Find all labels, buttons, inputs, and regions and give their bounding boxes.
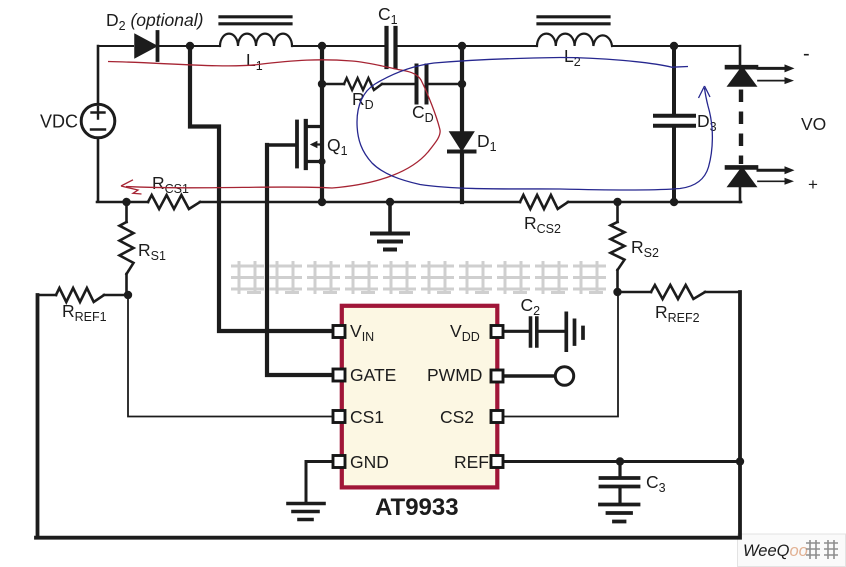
svg-text:RS1: RS1: [138, 240, 166, 263]
svg-text:REF: REF: [454, 452, 489, 472]
resistor RD: [344, 78, 382, 90]
node REF right corner: [736, 457, 744, 465]
watermark hangzhou company gray text: [231, 261, 606, 294]
capacitor C3: [618, 462, 621, 477]
pin GATE: [333, 369, 345, 381]
node Q1 source bottom: [318, 198, 326, 206]
svg-text:RREF1: RREF1: [62, 301, 107, 324]
inductor L2: [537, 34, 612, 46]
LED pair with arrows: [727, 65, 756, 70]
wire PWMD terminal: [502, 374, 554, 378]
svg-text:D3: D3: [697, 111, 717, 134]
node RREF1 RS1 junction: [124, 291, 132, 299]
node RS2 RREF2 CS2 junction: [613, 288, 621, 296]
wire Q1 drain-source vertical x=322: [320, 46, 324, 202]
wire outer loop left/bottom/right: [36, 292, 740, 538]
node C1 right top rail: [458, 42, 466, 50]
svg-text:VDC: VDC: [40, 112, 78, 132]
svg-text:CD: CD: [412, 102, 434, 125]
node RD left: [318, 80, 326, 88]
pin GND: [333, 456, 345, 468]
capacitor CD: [417, 66, 427, 103]
svg-text:D1: D1: [477, 131, 497, 154]
pin CS2: [491, 411, 503, 423]
node ground bottom rail: [386, 198, 394, 206]
svg-text:RCS1: RCS1: [152, 173, 189, 196]
transistor Q1: [267, 143, 296, 146]
node D3 top: [670, 42, 678, 50]
pin VIN: [333, 326, 345, 338]
svg-text:RD: RD: [352, 89, 374, 112]
wire VDD / capacitor C2: [502, 330, 529, 333]
inductor L1: [220, 34, 292, 46]
core of L1: [220, 17, 291, 24]
capacitor D3: [672, 46, 676, 202]
wire top rail y=46: [98, 45, 740, 47]
pin PWMD: [491, 370, 503, 382]
wire thick from node after D2 down to VIN pin: [190, 46, 336, 331]
wire VDC left vertical: [97, 46, 100, 201]
node Q1 source stub: [318, 158, 325, 165]
svg-text:VO: VO: [801, 114, 826, 134]
resistor RREF2: [618, 291, 741, 294]
core of L2: [538, 17, 609, 24]
svg-text:CS2: CS2: [440, 407, 474, 427]
svg-text:-: -: [803, 43, 810, 65]
svg-text:CS1: CS1: [350, 407, 384, 427]
ground below Q1 source node: [388, 202, 392, 233]
resistor RCS1: [148, 195, 200, 209]
svg-text:C2: C2: [521, 295, 541, 318]
svg-text:GND: GND: [350, 452, 389, 472]
node D3 bottom: [670, 198, 678, 206]
svg-text:PWMD: PWMD: [427, 365, 482, 385]
resistor RS2: [616, 202, 619, 292]
svg-text:+: +: [808, 175, 818, 194]
svg-text:Q1: Q1: [327, 135, 348, 158]
svg-text:C3: C3: [646, 472, 666, 495]
watermark weeqoo box: [738, 534, 846, 567]
svg-text:GATE: GATE: [350, 365, 396, 385]
annotation red current loop: [108, 60, 440, 194]
resistor RCS2: [520, 195, 568, 209]
IC body AT9933: [342, 306, 498, 488]
svg-text:RREF2: RREF2: [655, 302, 700, 325]
wire GATE from Q1: [267, 145, 336, 375]
wire LED branch: [739, 46, 742, 202]
svg-text:C1: C1: [378, 4, 398, 27]
wire GND pin to ground: [306, 462, 336, 504]
pin REF: [491, 456, 503, 468]
svg-text:WeeQoo: WeeQoo: [743, 542, 808, 560]
wire REF: [502, 460, 740, 463]
node CD right: [458, 80, 466, 88]
pin squares: [333, 326, 503, 468]
wire CS2: [502, 292, 618, 417]
annotation blue current loop: [357, 58, 712, 191]
source VDC: [81, 104, 115, 138]
resistor RREF1: [38, 294, 129, 297]
svg-text:AT9933: AT9933: [375, 494, 459, 521]
svg-text:RS2: RS2: [631, 237, 659, 260]
node after D2: [186, 42, 194, 50]
capacitor C1: [387, 28, 396, 67]
diode D2: [135, 35, 157, 58]
pin VDD: [491, 326, 503, 338]
svg-text:RCS2: RCS2: [524, 213, 561, 236]
wire RD row: [322, 83, 462, 86]
diode D1: [460, 46, 464, 202]
node dots: [122, 42, 744, 466]
node RS1 top: [122, 198, 130, 206]
wire CS1: [128, 295, 336, 417]
wire bottom rail y=202: [97, 201, 741, 204]
svg-text:D2 (optional): D2 (optional): [106, 10, 203, 33]
resistor RS1: [125, 202, 128, 295]
node C3 top: [616, 457, 624, 465]
svg-text:L1: L1: [246, 50, 263, 73]
node RS2 top: [613, 198, 621, 206]
node L1 right: [318, 42, 326, 50]
pin CS1: [333, 411, 345, 423]
